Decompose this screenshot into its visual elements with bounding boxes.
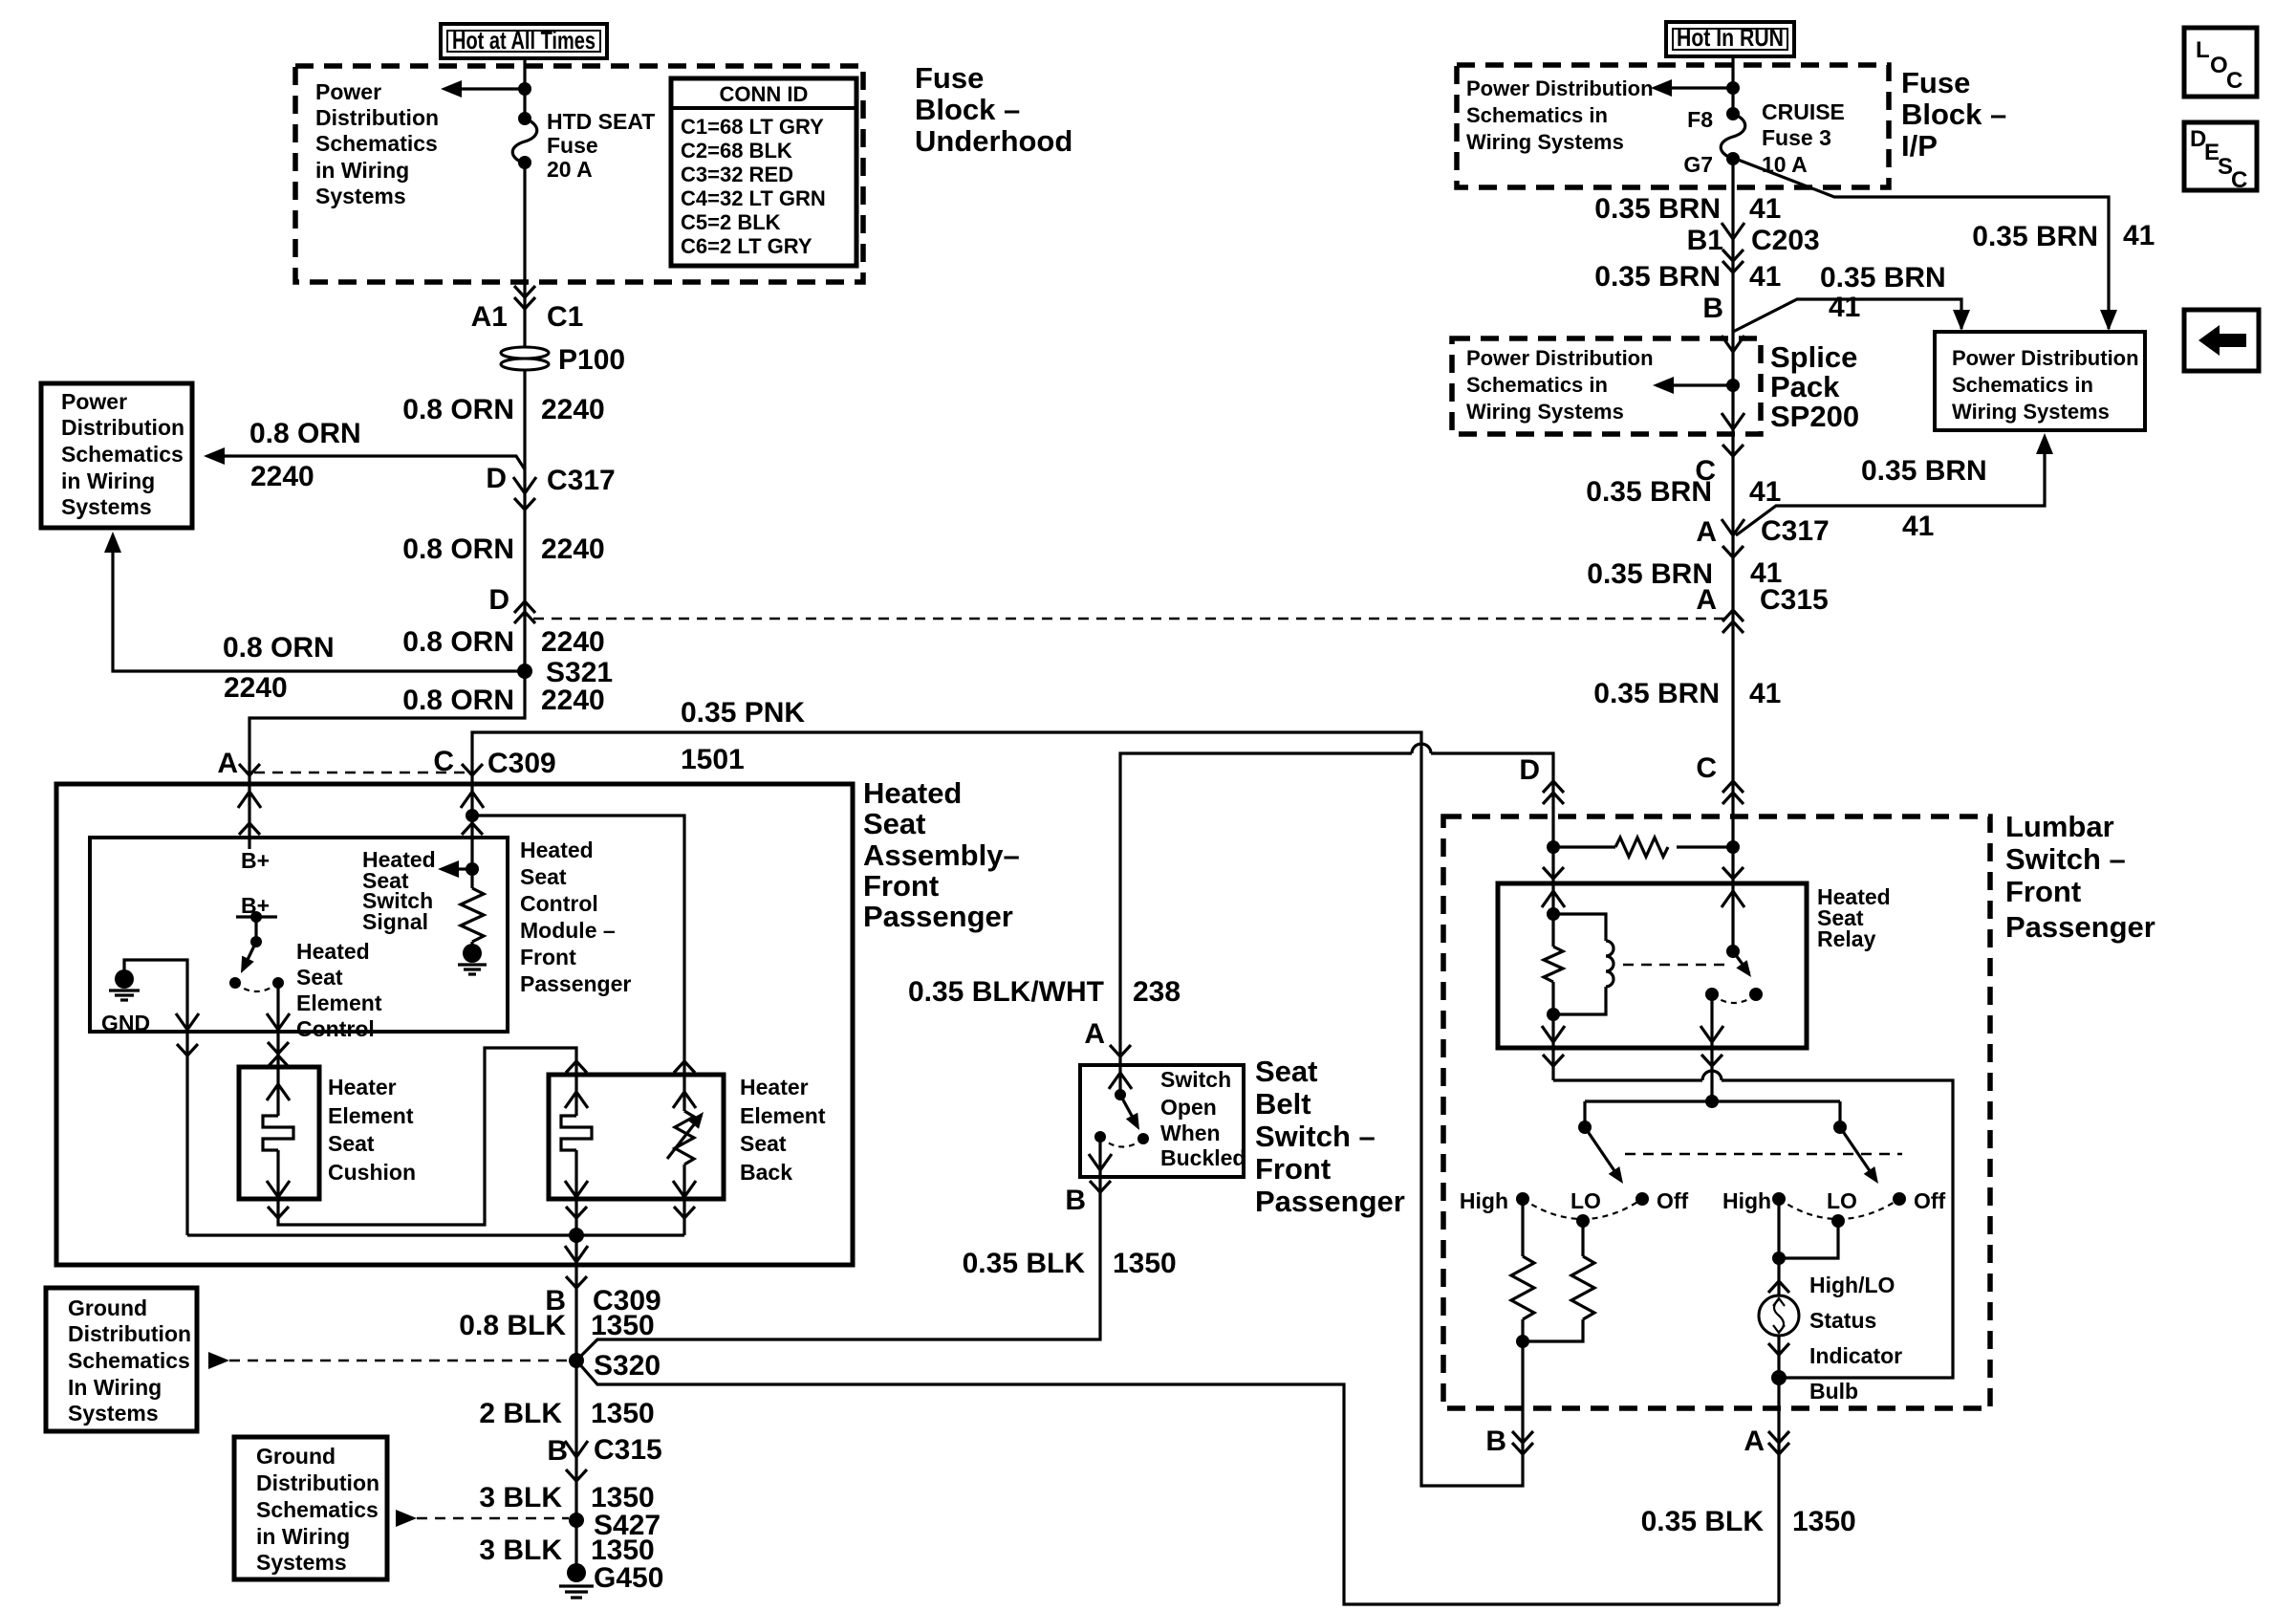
svg-text:C2=68 BLK: C2=68 BLK (681, 139, 792, 163)
svg-text:Switch –: Switch – (2005, 842, 2126, 876)
svg-text:Back: Back (740, 1160, 792, 1185)
svg-text:41: 41 (1749, 678, 1781, 709)
svg-text:Fuse: Fuse (915, 61, 984, 95)
svg-text:GND: GND (101, 1011, 150, 1035)
svg-text:2240: 2240 (224, 672, 288, 704)
svg-text:Assembly–: Assembly– (863, 838, 1020, 872)
svg-text:B+: B+ (241, 893, 270, 918)
svg-text:CRUISE: CRUISE (1762, 99, 1845, 124)
svg-text:Schematics in: Schematics in (1952, 373, 2093, 397)
svg-text:Wiring Systems: Wiring Systems (1466, 130, 1624, 154)
svg-text:41: 41 (1749, 193, 1781, 225)
svg-text:Power: Power (61, 389, 127, 414)
svg-text:C4=32 LT GRN: C4=32 LT GRN (681, 186, 826, 210)
svg-text:B: B (1485, 1426, 1506, 1457)
svg-text:1350: 1350 (591, 1310, 655, 1341)
svg-text:Seat: Seat (740, 1131, 787, 1156)
svg-text:D: D (488, 584, 509, 616)
svg-text:Systems: Systems (256, 1550, 347, 1575)
svg-text:Relay: Relay (1817, 926, 1876, 951)
svg-text:C315: C315 (1760, 584, 1829, 616)
svg-text:0.35 BRN: 0.35 BRN (1861, 455, 1987, 487)
svg-text:Ground: Ground (256, 1444, 336, 1469)
svg-text:CONN ID: CONN ID (720, 82, 809, 106)
svg-text:2240: 2240 (541, 533, 605, 565)
svg-text:D: D (1519, 754, 1540, 786)
svg-text:Front: Front (863, 869, 939, 903)
svg-text:Hot at All Times: Hot at All Times (452, 26, 596, 54)
svg-text:High: High (1722, 1188, 1771, 1213)
svg-text:C315: C315 (594, 1434, 662, 1466)
svg-text:Element: Element (328, 1103, 414, 1128)
svg-text:Off: Off (1657, 1188, 1689, 1213)
svg-text:C: C (2226, 68, 2242, 94)
svg-text:C: C (2231, 167, 2247, 193)
svg-text:0.35 BRN: 0.35 BRN (1972, 221, 2098, 252)
svg-text:Distribution: Distribution (61, 415, 184, 440)
svg-text:Front: Front (520, 945, 576, 969)
svg-text:Block –: Block – (915, 93, 1020, 126)
svg-text:Seat: Seat (1255, 1055, 1317, 1088)
svg-text:Belt: Belt (1255, 1087, 1311, 1121)
svg-text:Module –: Module – (520, 918, 616, 943)
svg-text:Pack: Pack (1770, 370, 1840, 403)
svg-text:0.35 BRN: 0.35 BRN (1587, 558, 1713, 590)
svg-text:Control: Control (296, 1016, 375, 1041)
svg-text:A: A (217, 748, 238, 779)
svg-text:0.35 PNK: 0.35 PNK (681, 697, 805, 729)
svg-text:Open: Open (1160, 1095, 1217, 1120)
svg-text:0.8 ORN: 0.8 ORN (249, 418, 361, 449)
svg-text:41: 41 (2123, 220, 2155, 251)
svg-text:41: 41 (1749, 476, 1781, 508)
svg-text:2240: 2240 (541, 394, 605, 425)
svg-text:B: B (547, 1435, 568, 1467)
svg-text:1350: 1350 (1113, 1248, 1177, 1279)
svg-text:B: B (1702, 293, 1723, 324)
svg-text:0.35 BRN: 0.35 BRN (1593, 678, 1720, 709)
svg-text:Schematics in: Schematics in (1466, 373, 1608, 397)
svg-text:B: B (1065, 1185, 1086, 1216)
svg-text:Fuse: Fuse (547, 133, 598, 158)
svg-text:Bulb: Bulb (1809, 1379, 1858, 1404)
svg-text:G7: G7 (1683, 152, 1713, 177)
svg-text:0.8 ORN: 0.8 ORN (402, 533, 514, 565)
svg-text:3 BLK: 3 BLK (479, 1482, 562, 1513)
svg-text:0.35 BRN: 0.35 BRN (1594, 261, 1721, 293)
svg-text:Systems: Systems (68, 1401, 159, 1426)
svg-text:Fuse 3: Fuse 3 (1762, 125, 1831, 150)
svg-text:Heater: Heater (328, 1075, 397, 1099)
svg-text:LO: LO (1570, 1188, 1601, 1213)
svg-text:10 A: 10 A (1762, 152, 1808, 177)
svg-text:Power Distribution: Power Distribution (1466, 76, 1654, 100)
svg-text:0.35 BLK/WHT: 0.35 BLK/WHT (908, 976, 1104, 1008)
svg-text:Seat: Seat (328, 1131, 375, 1156)
svg-text:2 BLK: 2 BLK (479, 1398, 562, 1429)
svg-text:B+: B+ (241, 848, 270, 873)
svg-text:in Wiring: in Wiring (256, 1524, 350, 1549)
svg-text:A1: A1 (471, 301, 508, 333)
svg-text:Schematics: Schematics (315, 131, 438, 156)
svg-text:0.35 BLK: 0.35 BLK (1641, 1506, 1765, 1537)
svg-text:Switch: Switch (1160, 1067, 1231, 1092)
svg-text:Passenger: Passenger (1255, 1185, 1405, 1218)
svg-text:Switch –: Switch – (1255, 1120, 1375, 1153)
svg-text:Heater: Heater (740, 1075, 809, 1099)
svg-text:Passenger: Passenger (863, 900, 1013, 933)
svg-text:20 A: 20 A (547, 157, 593, 182)
svg-text:C3=32 RED: C3=32 RED (681, 163, 793, 186)
svg-text:Passenger: Passenger (520, 971, 631, 996)
svg-text:Buckled: Buckled (1160, 1145, 1245, 1170)
svg-text:Schematics: Schematics (68, 1348, 190, 1373)
svg-text:P100: P100 (558, 344, 625, 376)
svg-text:Distribution: Distribution (256, 1470, 379, 1495)
svg-text:0.35 BRN: 0.35 BRN (1820, 262, 1946, 294)
svg-text:I/P: I/P (1901, 129, 1938, 163)
svg-text:C6=2 LT GRY: C6=2 LT GRY (681, 234, 812, 258)
svg-text:Seat: Seat (296, 965, 343, 990)
svg-text:Heated: Heated (520, 838, 594, 862)
svg-text:O: O (2210, 53, 2228, 78)
svg-text:Schematics: Schematics (256, 1497, 379, 1522)
svg-text:Heated: Heated (296, 939, 370, 964)
svg-text:C1: C1 (547, 301, 583, 333)
svg-text:HTD SEAT: HTD SEAT (547, 109, 655, 134)
svg-text:Fuse: Fuse (1901, 66, 1970, 99)
svg-text:F8: F8 (1687, 107, 1713, 132)
svg-text:Front: Front (1255, 1152, 1331, 1186)
svg-text:Systems: Systems (61, 494, 152, 519)
svg-text:Schematics in: Schematics in (1466, 103, 1608, 127)
svg-text:Status: Status (1809, 1308, 1876, 1333)
svg-text:A: A (1084, 1018, 1105, 1050)
svg-text:Power: Power (315, 79, 381, 104)
svg-text:Off: Off (1914, 1188, 1946, 1213)
svg-text:Hot In RUN: Hot In RUN (1677, 23, 1784, 52)
svg-text:41: 41 (1902, 511, 1934, 542)
svg-text:Ground: Ground (68, 1295, 147, 1320)
svg-text:Block –: Block – (1901, 98, 2006, 131)
svg-text:Seat: Seat (520, 864, 567, 889)
svg-text:0.8 ORN: 0.8 ORN (402, 685, 514, 716)
svg-text:1350: 1350 (1792, 1506, 1856, 1537)
svg-text:A: A (1696, 584, 1717, 616)
svg-text:C309: C309 (487, 748, 556, 779)
svg-text:Power Distribution: Power Distribution (1952, 346, 2139, 370)
svg-text:LO: LO (1827, 1188, 1857, 1213)
svg-text:A: A (1696, 516, 1717, 548)
svg-text:Control: Control (520, 891, 598, 916)
svg-text:238: 238 (1133, 976, 1180, 1008)
svg-text:Wiring Systems: Wiring Systems (1466, 400, 1624, 424)
svg-text:C5=2 BLK: C5=2 BLK (681, 210, 781, 234)
svg-text:B1: B1 (1687, 225, 1723, 256)
svg-text:High/LO: High/LO (1809, 1273, 1895, 1297)
svg-text:41: 41 (1749, 261, 1781, 293)
svg-text:Signal: Signal (362, 909, 428, 934)
svg-text:In Wiring: In Wiring (68, 1375, 162, 1400)
svg-text:Element: Element (296, 991, 382, 1015)
svg-text:G450: G450 (594, 1562, 663, 1594)
svg-text:A: A (1744, 1426, 1765, 1457)
svg-text:High: High (1460, 1188, 1508, 1213)
svg-text:L: L (2196, 37, 2210, 63)
svg-text:Passenger: Passenger (2005, 910, 2155, 944)
svg-text:Element: Element (740, 1103, 826, 1128)
svg-text:Heated: Heated (863, 776, 962, 810)
svg-text:Cushion: Cushion (328, 1160, 416, 1185)
svg-text:0.35 BRN: 0.35 BRN (1586, 476, 1712, 508)
svg-text:1350: 1350 (591, 1398, 655, 1429)
svg-text:C: C (433, 746, 454, 777)
svg-text:C: C (1696, 752, 1717, 784)
svg-text:in Wiring: in Wiring (315, 158, 409, 183)
svg-text:D: D (486, 463, 507, 494)
svg-text:0.8 BLK: 0.8 BLK (459, 1310, 566, 1341)
svg-text:C203: C203 (1751, 225, 1820, 256)
svg-text:0.8 ORN: 0.8 ORN (223, 632, 335, 664)
svg-text:Distribution: Distribution (315, 105, 439, 130)
svg-text:2240: 2240 (250, 461, 314, 492)
svg-text:Underhood: Underhood (915, 124, 1072, 158)
svg-text:3 BLK: 3 BLK (479, 1535, 562, 1566)
svg-text:Front: Front (2005, 875, 2081, 908)
svg-text:Wiring Systems: Wiring Systems (1952, 400, 2110, 424)
svg-text:Indicator: Indicator (1809, 1343, 1902, 1368)
svg-text:2240: 2240 (541, 626, 605, 658)
svg-text:Power Distribution: Power Distribution (1466, 346, 1654, 370)
svg-text:Distribution: Distribution (68, 1321, 191, 1346)
svg-text:C317: C317 (547, 465, 616, 496)
svg-text:S320: S320 (594, 1350, 661, 1382)
svg-text:41: 41 (1829, 292, 1860, 323)
svg-text:Lumbar: Lumbar (2005, 810, 2114, 843)
svg-text:Seat: Seat (863, 807, 925, 840)
svg-text:C317: C317 (1761, 515, 1830, 547)
svg-text:1501: 1501 (681, 744, 745, 775)
svg-text:Splice: Splice (1770, 340, 1857, 374)
svg-text:Schematics: Schematics (61, 442, 184, 467)
svg-text:0.35 BRN: 0.35 BRN (1594, 193, 1721, 225)
svg-text:0.8 ORN: 0.8 ORN (402, 626, 514, 658)
svg-text:2240: 2240 (541, 685, 605, 716)
svg-text:Systems: Systems (315, 184, 406, 208)
svg-text:in Wiring: in Wiring (61, 468, 155, 493)
svg-text:0.35 BLK: 0.35 BLK (963, 1248, 1086, 1279)
svg-text:0.8 ORN: 0.8 ORN (402, 394, 514, 425)
svg-text:When: When (1160, 1121, 1221, 1145)
svg-text:SP200: SP200 (1770, 400, 1859, 433)
svg-text:C1=68 LT GRY: C1=68 LT GRY (681, 115, 824, 139)
